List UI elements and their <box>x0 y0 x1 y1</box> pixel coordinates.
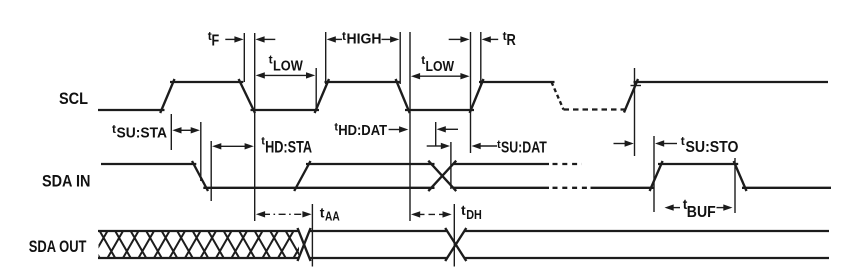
wire SCL high segment 4 <box>634 81 829 83</box>
wire SDA IN rising edge (data) <box>294 161 310 191</box>
measure line tR left / tSU:DAT right <box>470 32 472 153</box>
wire SDA OUT hatched bottom rail <box>98 257 299 259</box>
arrow tSU:DAT pointing right <box>427 143 450 149</box>
arrow tR pointing right <box>449 36 470 42</box>
label SCL <box>59 90 88 108</box>
tick on SCL rising edge 4 <box>631 85 642 87</box>
wire SCL rising edge 2 <box>315 79 329 113</box>
label SDA OUT <box>29 237 87 256</box>
arrow tLOW2 double <box>411 73 470 79</box>
measure line tAA right @SDA OUT X <box>311 204 313 267</box>
svg-text:R: R <box>507 32 517 49</box>
label tDH <box>461 202 482 222</box>
measure line tR right <box>480 32 482 86</box>
label SDA IN <box>42 172 90 191</box>
label tSU:DAT <box>497 139 547 156</box>
wire SCL rising edge 3 (tR) <box>470 79 484 113</box>
wire SDA IN rising edge (STOP pulse) <box>650 161 663 191</box>
wire SDA IN pulse top <box>658 163 738 165</box>
measure line tSU:DAT left <box>450 142 452 189</box>
svg-text:t: t <box>269 53 273 67</box>
measure line tSU:STO left @SCL rise <box>634 68 636 156</box>
arrow tSU:STO pointing left <box>655 140 677 146</box>
measure line tBUF right <box>734 158 736 213</box>
arrow tSU:DAT pointing left <box>472 143 498 149</box>
arrow tF pointing right <box>225 36 243 42</box>
measure line tHIGH right <box>399 32 401 84</box>
label tLOW (second) <box>421 53 454 75</box>
label tLOW (first) <box>269 53 304 75</box>
label tSU:STA <box>112 122 167 141</box>
label tHD:STA <box>261 136 312 157</box>
arrow tHD:DAT pointing right <box>389 126 409 132</box>
arrow tSU:STA double <box>172 127 200 133</box>
measure line tHIGH left <box>325 32 327 84</box>
label tHIGH <box>342 29 382 48</box>
arrow tF pointing left <box>255 36 275 42</box>
arrow tDH double dashed <box>411 211 452 217</box>
svg-text:DH: DH <box>466 208 482 222</box>
svg-text:SDA IN: SDA IN <box>42 172 90 191</box>
wire SCL low segment 3 <box>405 109 474 111</box>
measure line tHD:STA left <box>210 141 212 201</box>
arrow tSU:STO pointing right <box>614 140 634 146</box>
measure line tSU:STO right / tBUF left <box>653 136 655 212</box>
wire SCL high segment 3 <box>479 81 555 83</box>
label tF <box>208 29 220 50</box>
measure line tLOW1 right <box>315 68 317 110</box>
wire SDA IN falling edge (START) <box>192 161 208 191</box>
wire SDA OUT bottom rail middle <box>309 257 448 259</box>
wire SDA IN crossover X falling <box>428 161 456 191</box>
label tAA <box>320 205 340 224</box>
arrow tR pointing left <box>482 36 499 42</box>
wire SDA IN falling edge (pulse end) <box>734 161 747 191</box>
wire SCL high segment 2 <box>325 81 401 83</box>
wire SDA OUT transition X right (tDH) <box>445 228 466 261</box>
wire SDA IN crossover X rising <box>428 161 456 191</box>
arrow tHIGH right head <box>382 36 400 42</box>
svg-text:HD:DAT: HD:DAT <box>338 122 388 139</box>
svg-text:SCL: SCL <box>59 90 88 108</box>
SDA OUT crosshatch (invalid data) <box>46 231 317 258</box>
measure line tHD:DAT right <box>435 122 437 146</box>
measure line tDH right @SDA OUT X <box>453 204 455 267</box>
label tSU:STO <box>681 134 739 156</box>
wire SCL dashed falling edge <box>552 82 564 110</box>
arrow tHIGH left head <box>327 36 342 42</box>
wire SCL falling edge 1 (tF) <box>239 79 255 113</box>
wire SDA IN high segment 1 <box>101 163 196 165</box>
wire SDA OUT top rail right <box>464 230 830 232</box>
wire SDA OUT transition X left <box>298 228 311 261</box>
svg-text:SDA OUT: SDA OUT <box>29 237 87 256</box>
wire SCL dashed low segment <box>564 108 626 110</box>
wire SCL falling edge 2 <box>396 79 410 113</box>
measure line tF left <box>243 33 245 82</box>
wire SDA IN low rail dashed <box>553 187 591 189</box>
wire SDA OUT top rail middle <box>309 230 448 232</box>
svg-text:t: t <box>112 122 116 136</box>
svg-text:LOW: LOW <box>426 59 455 75</box>
wire SDA OUT bottom rail right <box>464 257 830 259</box>
wire SCL low segment 1 <box>98 109 165 111</box>
svg-text:SU:STO: SU:STO <box>686 139 739 156</box>
arrow tHD:DAT pointing left <box>437 126 458 132</box>
wire SDA IN high rail 2 <box>453 163 549 165</box>
wire SDA IN high rail <box>306 163 435 165</box>
wire SDA IN low segment 3 <box>591 187 655 189</box>
svg-text:AA: AA <box>325 209 340 224</box>
arrow tLOW1 double <box>256 72 316 78</box>
wire SDA IN low segment 4 <box>742 187 831 189</box>
wire SDA OUT hatched top rail <box>98 230 299 232</box>
svg-text:SU:DAT: SU:DAT <box>501 139 547 156</box>
wire SCL low segment 2 <box>251 109 320 111</box>
svg-text:F: F <box>212 32 220 49</box>
svg-text:LOW: LOW <box>273 59 303 75</box>
wire SDA IN high rail dashed <box>553 163 583 165</box>
wire SCL rising edge 4 <box>624 79 638 113</box>
wire SDA IN low rail <box>203 187 434 189</box>
arrow tBUF left head <box>665 204 681 210</box>
measure line tF right / tAA left <box>254 33 256 221</box>
svg-text:SU:STA: SU:STA <box>117 124 168 141</box>
arrow tHD:STA double <box>212 143 254 149</box>
measure line tSU:STA left @SCL rise <box>170 114 172 150</box>
arrow tAA double dash-dot <box>256 211 312 217</box>
label tBUF <box>683 197 716 221</box>
svg-text:t: t <box>342 29 346 43</box>
svg-text:t: t <box>681 134 685 148</box>
measure line tLOW2 left / tDH left <box>409 32 411 221</box>
svg-text:BUF: BUF <box>687 204 716 221</box>
wire SCL high segment 1 <box>170 81 243 83</box>
measure line tSU:STA right @SDA fall <box>200 122 202 181</box>
svg-text:t: t <box>320 205 325 221</box>
wire SCL rising edge 1 <box>160 79 174 113</box>
label tR <box>503 29 517 49</box>
svg-text:HIGH: HIGH <box>347 32 382 48</box>
label tHD:DAT <box>334 122 387 139</box>
arrow tBUF right head <box>717 204 733 210</box>
svg-text:HD:STA: HD:STA <box>265 139 312 157</box>
wire SDA IN low rail 2 <box>453 187 549 189</box>
